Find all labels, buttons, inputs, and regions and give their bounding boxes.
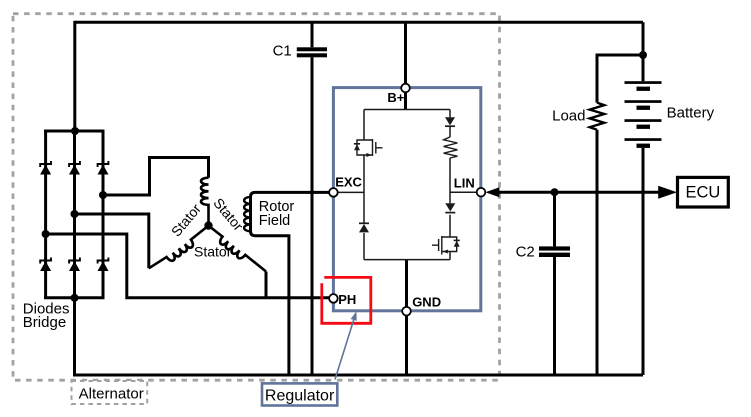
node EXC terminal — [329, 188, 338, 197]
wire LIN to ECU — [498, 191, 660, 194]
stator middle winding coil — [201, 178, 209, 226]
wire EXC inner stub — [333, 191, 364, 193]
wire ground drop from bridge bottom bus — [73, 298, 76, 375]
node LIN terminal — [477, 188, 486, 197]
node bridge top bus junction — [71, 127, 79, 135]
wire left vertical from top to diode bridge — [73, 21, 76, 131]
arrow into LIN — [485, 187, 499, 197]
svg-text:Regulator: Regulator — [265, 387, 335, 404]
terminal circles — [329, 84, 485, 316]
wire EXC to rotor field and rotor return to ground — [251, 192, 331, 375]
wire diode bridge right column — [102, 131, 105, 298]
wire diode bridge left column — [44, 131, 47, 298]
diode D6 bridge lower-right — [98, 258, 109, 272]
svg-text:Load: Load — [552, 108, 585, 125]
capacitor C1 plates — [297, 47, 327, 57]
red highlight box around PH — [322, 277, 371, 323]
regulator inner circuit — [333, 110, 481, 260]
diode D7 top-right inner (down) — [445, 117, 455, 125]
diode D5 bridge lower-middle — [69, 258, 80, 272]
transistor Q1 high-side MOSFET — [354, 139, 383, 157]
svg-text:Field: Field — [259, 213, 290, 229]
svg-text:PH: PH — [338, 292, 356, 307]
diode D9 inner left (up) — [359, 222, 369, 224]
svg-text:Stator: Stator — [194, 243, 232, 259]
node GND terminal — [402, 307, 411, 316]
node LIN-C2 junction — [551, 188, 559, 196]
label box Alternator — [72, 381, 148, 404]
diode D2 bridge upper-middle — [69, 161, 80, 175]
wire B+ terminal drop — [404, 22, 407, 109]
svg-text:Alternator: Alternator — [79, 386, 144, 403]
wire right stator winding tail to phase line — [265, 272, 268, 298]
wire bottom ground bus — [73, 374, 643, 377]
stator right winding coil — [209, 226, 267, 272]
wire C2 branch — [553, 192, 556, 375]
svg-text:B+: B+ — [387, 90, 404, 105]
transistor Q2 low-side MOSFET — [432, 236, 460, 255]
wire C1 branch — [311, 22, 314, 375]
wire inner top rail — [364, 109, 450, 111]
capacitor C2 plates — [539, 246, 570, 257]
svg-text:LIN: LIN — [454, 175, 475, 190]
svg-text:EXC: EXC — [335, 174, 362, 189]
regulator callout arrow — [335, 320, 354, 380]
regulator box — [333, 88, 480, 311]
wire load branch — [597, 55, 643, 375]
node PH terminal — [329, 294, 338, 303]
wire inner left rail — [363, 110, 365, 260]
ECU box — [678, 177, 729, 207]
wire diode bridge bottom bus — [44, 296, 105, 299]
diode D3 bridge upper-right — [98, 161, 109, 175]
wire inner right rail — [449, 110, 451, 260]
node phase A tap — [99, 191, 107, 199]
svg-text:Bridge: Bridge — [23, 314, 66, 331]
diode D8 below LIN (down) — [445, 203, 455, 211]
wire top B+ bus — [75, 21, 643, 24]
svg-text:GND: GND — [412, 295, 441, 310]
wire inner bottom rail — [364, 259, 450, 261]
stator left winding coil — [149, 226, 209, 269]
arrow into ECU — [658, 186, 677, 199]
node stator star point — [204, 221, 212, 229]
wire LIN inner stub — [450, 191, 481, 193]
resistor Load zigzag — [590, 103, 605, 130]
node battery-load split — [639, 51, 647, 59]
wire GND drop from regulator — [405, 260, 408, 375]
wire diode bridge top bus — [44, 130, 105, 133]
wire diode bridge middle column — [73, 131, 76, 298]
node phase B tap — [71, 210, 79, 218]
node bridge bottom bus junction — [71, 294, 79, 302]
wire right vertical to battery — [642, 22, 645, 375]
resistor R1 inner spring — [444, 137, 458, 158]
battery cells — [625, 81, 662, 148]
svg-text:C1: C1 — [273, 42, 292, 59]
label box Regulator — [262, 383, 337, 405]
wire phase B from middle column to left stator winding — [75, 214, 149, 268]
diode D4 bridge lower-left — [40, 258, 51, 272]
svg-text:ECU: ECU — [685, 184, 720, 202]
alternator dashed border — [13, 14, 500, 381]
diode D1 bridge upper-left — [40, 161, 51, 175]
wire phase A from right column to stator top — [103, 158, 209, 196]
node B+ terminal — [401, 84, 410, 93]
node phase C tap — [42, 230, 50, 238]
rotor field coil — [244, 197, 250, 231]
svg-text:C2: C2 — [516, 244, 535, 261]
wire phase C from left column to PH terminal — [46, 234, 331, 298]
svg-text:Battery: Battery — [667, 104, 715, 121]
